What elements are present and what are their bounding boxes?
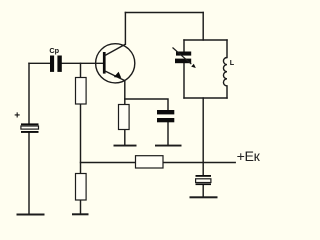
wire: tank top: [184, 39, 227, 41]
resistor R1 (upper bias): [76, 78, 87, 105]
wire: tank bottom feed to bus: [202, 98, 204, 175]
label Cp: [49, 46, 59, 55]
wire: base right segment: [62, 62, 103, 64]
wire: collector top run: [125, 12, 203, 14]
resistor Re (emitter): [119, 105, 130, 130]
wire: tank bottom: [184, 97, 227, 99]
electrolytic capacitor (left, battery-style): [21, 123, 39, 132]
wire: collector vertical: [124, 13, 126, 45]
wire: emitter node to bypass cap: [125, 99, 168, 110]
wire: +Ek bus left of resistor: [81, 162, 136, 164]
wire: emitter vertical: [124, 81, 126, 105]
inductor L coil: [223, 58, 227, 86]
wire: emitter resistor to ground: [124, 130, 126, 145]
wire: tank left vertical lower: [183, 63, 185, 98]
transistor body circle: [96, 44, 135, 83]
transistor base bar: [103, 52, 106, 74]
wire: tank feed top vertical: [202, 13, 204, 41]
resistor Rk (bus, horizontal): [136, 156, 164, 168]
ground (bypass capacitor): [155, 145, 182, 147]
label L: [230, 58, 235, 67]
wire: decoupling cap to ground: [202, 185, 204, 196]
svg-text:+Ек: +Ек: [237, 149, 261, 165]
wire: inductor bottom lead: [226, 86, 228, 98]
svg-text:+: +: [14, 111, 20, 122]
svg-text:Cp: Cp: [49, 46, 59, 55]
electrolytic capacitor (decoupling, right): [196, 175, 212, 185]
svg-text:L: L: [230, 58, 235, 67]
variable capacitor arrow: [173, 48, 192, 65]
wire: bypass cap to ground: [167, 122, 169, 144]
wire: bias divider vertical middle: [80, 104, 82, 174]
transistor emitter arrowhead: [114, 72, 122, 78]
bypass capacitor plates: [157, 110, 174, 122]
wire: left branch vertical lower: [28, 133, 30, 214]
label + (left cap polarity): [14, 111, 20, 122]
capacitor Cp plates: [50, 56, 62, 72]
transistor collector stroke: [105, 44, 126, 56]
wire: left branch vertical upper: [28, 63, 30, 123]
wire: bias divider vertical top: [80, 63, 82, 77]
transistor VT1: [96, 44, 135, 83]
resistor R2 (lower bias): [76, 174, 87, 201]
ground (decoupling capacitor): [190, 196, 218, 198]
wire: inductor top lead: [226, 40, 228, 58]
wire: base left segment: [29, 62, 50, 64]
label +Ek: [237, 149, 261, 165]
ground (bias divider): [72, 213, 89, 215]
wire: tank left vertical upper: [183, 40, 185, 52]
variable capacitor arrowhead: [191, 64, 196, 68]
variable capacitor plates: [175, 52, 191, 64]
ground (left branch): [17, 214, 45, 216]
ground (emitter resistor): [114, 145, 137, 147]
wire: +Ek bus right of resistor: [163, 162, 235, 164]
transistor emitter stroke: [105, 71, 125, 81]
wire: bias divider vertical bottom: [80, 200, 82, 213]
